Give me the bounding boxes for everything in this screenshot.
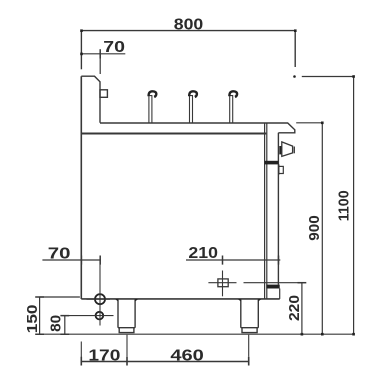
gas point crosshair vertical <box>222 271 224 297</box>
inlet crosshair upper <box>87 298 111 300</box>
dim 220 line <box>301 283 303 335</box>
left leg foot <box>119 328 135 333</box>
dim 800 end ticks <box>80 29 83 32</box>
dim 150 line <box>39 297 41 334</box>
gas nozzle base bar <box>279 146 282 154</box>
burner pin 1 tube <box>148 96 152 123</box>
burner pin 2 cap <box>189 91 197 97</box>
dim 220 ticks <box>298 282 307 284</box>
svg-text:70: 70 <box>48 245 71 262</box>
body bottom line <box>81 298 279 300</box>
dim 800 right extension <box>294 31 296 67</box>
dim 70 bottom ticks <box>81 256 100 265</box>
dim 1100 top extension <box>302 76 354 78</box>
burner pin 1 cap <box>149 91 157 97</box>
gas point centerline to 220 dim <box>208 282 302 284</box>
dim 70 bottom line <box>42 259 100 261</box>
gas nozzle cone <box>282 142 293 157</box>
dim 80 line <box>64 316 66 335</box>
duct foot box <box>279 289 281 299</box>
svg-text:170: 170 <box>88 348 120 365</box>
dim 900 top extension <box>296 122 323 124</box>
svg-text:220: 220 <box>287 295 303 321</box>
body right edge inner <box>266 123 268 299</box>
svg-text:1100: 1100 <box>337 190 353 221</box>
rear duct right edge <box>277 133 279 285</box>
left leg <box>118 299 135 328</box>
svg-text:80: 80 <box>48 315 64 332</box>
body top-left edge with chamfer <box>81 76 100 123</box>
right leg flanges <box>238 299 262 301</box>
dim 1100 line <box>353 77 355 335</box>
dim 70 top line <box>81 53 125 55</box>
svg-text:800: 800 <box>174 17 204 34</box>
right leg <box>241 299 258 328</box>
duct upper thick bar <box>265 161 279 165</box>
dim 80 ticks <box>60 316 69 335</box>
bottom dim ticks <box>81 357 248 366</box>
svg-text:900: 900 <box>307 215 323 241</box>
right leg foot <box>241 328 257 333</box>
left leg flanges <box>115 299 138 301</box>
dim 800 line <box>81 30 295 32</box>
burner pin 3 cap <box>229 91 237 97</box>
body left edge <box>80 76 82 299</box>
dim 150 extension <box>40 296 80 298</box>
gas point crosshair square <box>218 279 228 287</box>
inlet crosshair lower / 80 extension <box>65 315 114 317</box>
svg-text:70: 70 <box>103 39 125 56</box>
dim 1100 top reference dot <box>293 75 296 78</box>
body right edge outer <box>264 123 266 299</box>
bottom dim extensions <box>81 335 248 366</box>
dim 150 ticks <box>35 297 44 334</box>
worktop band line <box>81 133 266 135</box>
svg-text:210: 210 <box>188 245 218 262</box>
svg-text:150: 150 <box>25 305 41 334</box>
inlet circle upper <box>95 294 105 304</box>
burner pin 2 tube <box>189 96 193 123</box>
inlet circle lower <box>96 312 104 320</box>
gas nozzle tip face <box>293 147 295 154</box>
svg-text:460: 460 <box>170 348 204 365</box>
dim 900 line <box>321 123 323 334</box>
duct foot thick bar <box>266 285 279 289</box>
dim 210 line <box>186 259 280 261</box>
dim 210 ticks <box>223 256 279 265</box>
bottom dim line 170/460 <box>81 361 248 363</box>
front knob square <box>100 90 107 98</box>
floor ticks <box>321 333 324 336</box>
dim 800 left extension <box>80 31 82 70</box>
dim 70 top extension <box>99 54 101 74</box>
burner pin 3 tube <box>229 96 233 123</box>
floor reference line <box>37 333 354 335</box>
worktop top line with rear chamfer <box>100 123 295 133</box>
inlet vertical centerline <box>99 260 101 326</box>
duct tab <box>278 164 280 174</box>
dim 70 top ticks <box>99 49 101 58</box>
